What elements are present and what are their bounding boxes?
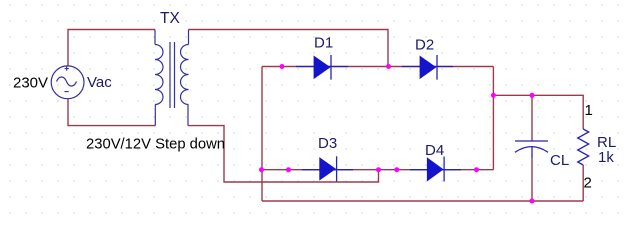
diode D4 triangle: [427, 158, 443, 181]
wire: D1 row horizontal: [262, 66, 493, 68]
wire: capacitor bottom lead: [531, 157, 533, 201]
ac source minus mark: [64, 91, 68, 93]
diode D1 cathode bar: [330, 55, 332, 80]
resistor RL zigzag: [578, 129, 589, 165]
junction dot capacitor top: [530, 93, 535, 98]
wire: resistor bottom lead: [582, 165, 584, 201]
svg-text:D2: D2: [415, 37, 434, 54]
ac source sine wave: [57, 77, 77, 86]
transformer TX secondary winding: [180, 45, 188, 105]
wire: left rail vertical: [261, 67, 263, 202]
wire: source bottom to transformer primary bottom: [68, 99, 156, 126]
diode D2 cathode bar: [436, 55, 438, 80]
junction dot D4 anode wire: [394, 167, 399, 172]
junction dot D4 cathode wire: [474, 167, 479, 172]
capacitor CL top plate: [515, 140, 548, 142]
transformer TX secondary bottom pin: [187, 105, 189, 126]
wire: capacitor top lead: [531, 95, 533, 141]
junction dot D3 anode wire: [286, 167, 291, 172]
svg-text:230V/12V Step down: 230V/12V Step down: [86, 137, 225, 153]
svg-text:TX: TX: [160, 10, 180, 27]
junction dot D3 row at left rail: [259, 167, 264, 172]
wire: mid-right vertical from D2 output to D4 output: [492, 67, 494, 170]
junction dot D1 row left: [280, 64, 285, 69]
wire: source top to transformer primary top: [68, 30, 155, 66]
wire: transformer secondary top to bridge node between D1 and D2: [189, 30, 389, 67]
diode D3 cathode bar: [336, 156, 338, 181]
diode D1 triangle: [314, 56, 330, 78]
diode D2 triangle: [420, 56, 436, 78]
svg-text:Vac: Vac: [87, 74, 112, 91]
wire: transformer secondary bottom to D3-D4 junction: [188, 126, 379, 182]
svg-text:D1: D1: [314, 35, 333, 52]
transformer TX primary top pin: [154, 30, 156, 45]
junction dot output node at mid rail: [491, 93, 496, 98]
svg-text:D3: D3: [318, 135, 337, 152]
transformer TX primary winding: [155, 45, 163, 105]
svg-text:230V: 230V: [13, 75, 48, 92]
diode D3 lead: [302, 169, 353, 171]
svg-text:1k: 1k: [598, 149, 614, 166]
transformer TX core: [170, 42, 175, 108]
wire: output node to resistor top: [493, 95, 583, 129]
diode D2 lead: [402, 66, 453, 68]
diode D4 lead: [410, 169, 461, 171]
svg-text:1: 1: [585, 102, 593, 119]
svg-text:2: 2: [584, 175, 592, 192]
capacitor CL bottom curved plate: [515, 147, 548, 153]
transformer TX secondary top pin: [188, 30, 190, 45]
svg-text:CL: CL: [550, 152, 569, 169]
capacitor CL bottom stub: [531, 147, 533, 158]
junction dot capacitor bottom: [530, 199, 535, 204]
diode D4 cathode bar: [443, 157, 445, 182]
wire: bottom rail: [262, 200, 583, 202]
diode D3 triangle: [320, 158, 336, 180]
junction dot between D1 and D2: [386, 64, 391, 69]
diode D1 lead: [296, 66, 348, 68]
svg-text:D4: D4: [425, 142, 444, 159]
ac source plus mark: [65, 67, 69, 71]
transformer TX primary bottom pin: [154, 105, 156, 126]
ac source Vac circle body: [51, 66, 84, 99]
junction dot secondary return at D3-D4: [376, 167, 381, 172]
wire: D3 row horizontal: [262, 169, 494, 171]
